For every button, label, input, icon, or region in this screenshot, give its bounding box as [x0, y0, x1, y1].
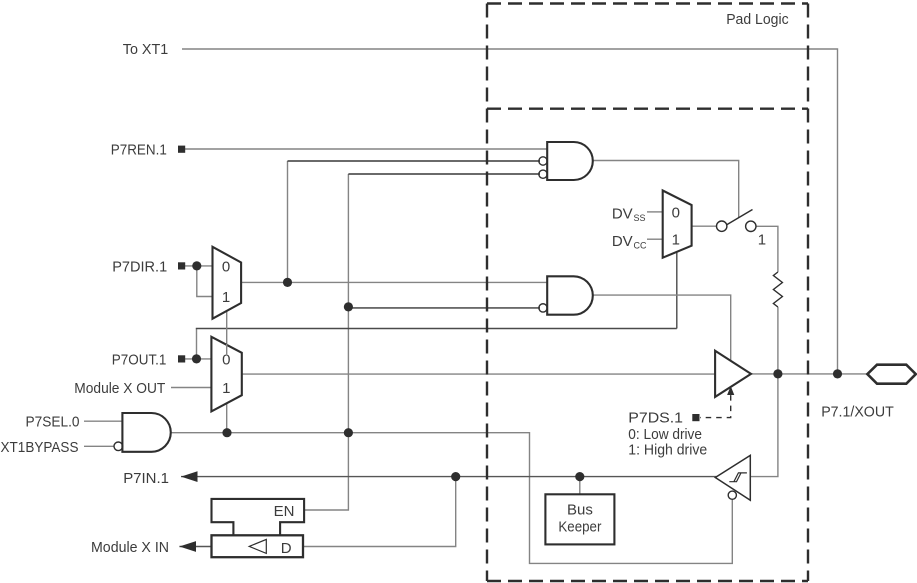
wire buffer U4 output to pad — [750, 373, 869, 375]
input Schmitt buffer U5 — [715, 455, 750, 500]
junction dot P7IN to D latch — [451, 472, 460, 481]
svg-text:To XT1: To XT1 — [123, 41, 168, 58]
switch S1 contact right — [746, 221, 756, 231]
clock triangle in D latch — [249, 539, 266, 553]
terminal square P7DIR.1 — [178, 262, 185, 269]
junction dot P7IN to Bus Keeper — [575, 472, 584, 481]
junction dot pad node at To XT1 — [833, 369, 842, 378]
wire P7OUT.1 to mux M2 input 0 — [185, 358, 212, 360]
junction dot select net at AND U3 output — [344, 428, 353, 437]
arrowhead P7IN.1 — [181, 471, 198, 482]
svg-text:Module X IN: Module X IN — [91, 539, 169, 556]
inverter bubble U1 input C — [539, 170, 547, 178]
D latch box — [212, 535, 304, 557]
svg-text:1: 1 — [758, 232, 766, 249]
hysteresis symbol U5 — [729, 473, 747, 482]
svg-text:DV: DV — [612, 205, 633, 222]
pad logic dashed boundary bottom — [487, 580, 808, 582]
svg-text:XT1BYPASS: XT1BYPASS — [1, 439, 79, 456]
wire AND U2 output to buffer U4 enable — [593, 295, 731, 360]
svg-text:P7.1/XOUT: P7.1/XOUT — [821, 403, 894, 420]
wire AND U1 output to switch S1 lever — [593, 161, 739, 218]
wire P7REN.1 to AND U1 — [185, 148, 549, 150]
wire P7DIR.1 to mux M1 input 0 — [185, 265, 213, 267]
svg-text:Bus: Bus — [567, 502, 593, 519]
svg-text:Keeper: Keeper — [558, 519, 601, 536]
arrowhead Module X IN — [179, 541, 196, 552]
wire XT1BYPASS to AND U3 inverted input — [84, 445, 115, 447]
wire P7DIR.1 loop to mux M1 input 1 — [197, 266, 213, 297]
junction dot pad node at resistor — [773, 369, 782, 378]
wire mux M1 output to AND U2 input — [241, 281, 549, 283]
output buffer U4 — [715, 351, 751, 397]
inverter bubble U3 input XT1BYPASS — [114, 442, 123, 451]
svg-text:1: High drive: 1: High drive — [628, 441, 707, 458]
terminal square P7REN.1 — [178, 146, 185, 153]
junction dot select net at mux M2 — [222, 428, 231, 437]
inverter bubble U2 input B — [539, 304, 547, 312]
junction dot select net to AND U2 — [344, 302, 353, 311]
svg-text:P7IN.1: P7IN.1 — [123, 470, 169, 487]
wire To XT1 from pad node to XT1 — [182, 49, 838, 374]
svg-text:DV: DV — [612, 233, 633, 250]
svg-text:SS: SS — [634, 213, 646, 223]
wire select net to AND U2 inverted input — [348, 307, 540, 309]
wire mux M1 output to AND U1 inverted input — [287, 161, 289, 282]
wire pad node down to input buffer U5 — [750, 374, 778, 477]
wire P7OUT.1 to mux M3 select — [196, 329, 198, 359]
junction dot P7DIR.1 branch — [192, 261, 201, 270]
svg-text:0: 0 — [672, 204, 680, 221]
dashed control P7DS.1 to buffer U4 — [700, 393, 731, 418]
junction dot P7OUT.1 branch — [192, 354, 201, 363]
mux M1 (P7DIR) — [213, 247, 242, 319]
wire select stub entering mux M2 — [226, 344, 228, 356]
svg-text:EN: EN — [274, 503, 295, 520]
AND gate U1 (pullup/pulldown enable) — [547, 142, 593, 180]
wire P7IN node to latch D input — [303, 477, 456, 547]
pad logic dashed boundary right — [807, 4, 809, 582]
wire AND U3 output to buffer U5 enable — [169, 433, 733, 564]
wire switch S1 to resistor R1 — [756, 226, 778, 272]
inverter bubble U1 input B — [539, 157, 547, 165]
mux M3 (DVss / DVcc) — [663, 191, 692, 258]
svg-text:D: D — [281, 540, 292, 557]
svg-text:Pad Logic: Pad Logic — [726, 11, 789, 28]
junction dot mux M1 output branch — [283, 278, 292, 287]
terminal square P7OUT.1 — [178, 355, 185, 362]
svg-text:P7SEL.0: P7SEL.0 — [26, 414, 80, 431]
svg-text:CC: CC — [634, 240, 647, 250]
wire DVcc to mux M3 input 1 — [647, 238, 663, 240]
inverter bubble U5 enable — [728, 491, 736, 499]
wire Module X OUT to mux M2 input 1 — [171, 387, 212, 389]
wire resistor R1 to pad node — [777, 307, 779, 374]
wire Module X IN from latch — [179, 546, 212, 548]
mux M2 (P7OUT / Module X OUT) — [211, 337, 241, 412]
wire select net vertical (AND U3 output to U1, U2, EN latch) — [304, 174, 348, 510]
wire select net to mux M1 and mux M2 select inputs — [226, 310, 228, 433]
EN latch outline — [212, 499, 305, 535]
pad logic dashed boundary top — [487, 2, 808, 4]
svg-text:P7OUT.1: P7OUT.1 — [112, 351, 167, 368]
svg-text:1: 1 — [222, 289, 230, 306]
pad logic dashed boundary left — [486, 4, 488, 582]
wire P7SEL.0 to AND U3 — [84, 420, 123, 422]
svg-text:1: 1 — [672, 232, 680, 249]
terminal square P7DS.1 — [692, 414, 699, 421]
resistor R1 — [773, 272, 782, 307]
wire P7IN node to Bus Keeper — [579, 477, 581, 495]
svg-text:P7REN.1: P7REN.1 — [111, 142, 167, 159]
svg-text:0: 0 — [222, 258, 230, 275]
svg-text:1: 1 — [222, 380, 230, 397]
wire P7IN.1 from buffer U5 — [181, 476, 717, 478]
svg-text:0: Low drive: 0: Low drive — [628, 426, 702, 443]
svg-text:P7DS.1: P7DS.1 — [628, 410, 683, 427]
Bus Keeper block — [545, 494, 614, 544]
switch S1 lever — [726, 210, 752, 226]
wire mux M2 output to output buffer U4 — [242, 373, 716, 375]
svg-text:P7DIR.1: P7DIR.1 — [112, 258, 167, 275]
arrowhead P7DS.1 control — [727, 386, 734, 395]
wire mux M3 output to switch S1 — [691, 225, 716, 227]
svg-text:Module X OUT: Module X OUT — [74, 380, 165, 397]
wire select net to AND U1 lower inverted input — [348, 173, 540, 175]
pad hexagon P7.1/XOUT — [867, 365, 915, 384]
AND gate U2 (output buffer enable) — [547, 276, 593, 314]
wire DVss to mux M3 input 0 — [647, 211, 663, 213]
pad logic inner dashed divider — [487, 107, 808, 109]
AND gate U3 (P7SEL / XT1BYPASS) — [122, 413, 170, 452]
switch S1 contact left — [717, 221, 727, 231]
